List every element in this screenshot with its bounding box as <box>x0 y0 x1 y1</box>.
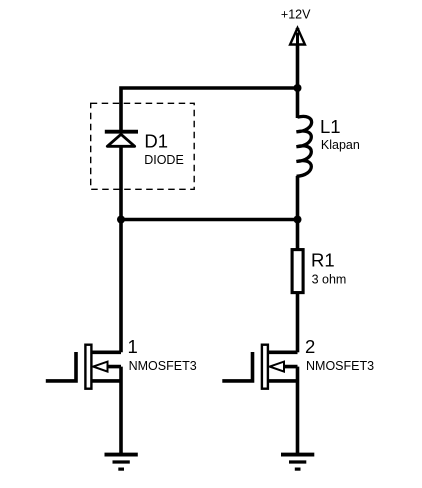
inductor L1 coil <box>297 116 312 176</box>
wire Q1 source to ground <box>119 367 123 455</box>
transistor Q1 source arrow <box>93 362 107 372</box>
wire resistor to Q2 drain <box>296 293 300 352</box>
power +12V arrow symbol <box>290 28 305 45</box>
diode D1 triangle <box>107 134 134 146</box>
node: middle left junction <box>117 216 125 224</box>
wire node to resistor <box>296 220 300 250</box>
dashed box around diode <box>91 103 195 189</box>
svg-text:D1: D1 <box>144 130 168 151</box>
transistor Q1 gate lead <box>46 352 76 381</box>
wire coil bottom to right node <box>296 176 300 220</box>
svg-text:NMOSFET3: NMOSFET3 <box>129 359 197 373</box>
wire Q2 source to ground <box>296 367 300 455</box>
svg-text:R1: R1 <box>311 249 335 270</box>
svg-text:Klapan: Klapan <box>321 138 360 152</box>
wire top rail (diode branch corner to +12V node) <box>121 88 298 132</box>
transistor Q2 source lead <box>277 365 298 369</box>
svg-text:3 ohm: 3 ohm <box>312 273 347 287</box>
svg-text:L1: L1 <box>320 116 341 137</box>
transistor Q1 source lead <box>100 365 121 369</box>
wire top node to coil <box>296 88 300 118</box>
transistor Q1 gate plate <box>85 345 91 389</box>
transistor Q2 gate plate <box>262 345 268 389</box>
resistor R1 body <box>292 250 303 293</box>
ground (left) <box>105 455 138 470</box>
ground (right) <box>281 455 314 470</box>
transistor Q1 drain lead <box>92 350 121 354</box>
transistor Q2 bulk lead <box>268 379 297 383</box>
svg-text:1: 1 <box>128 336 138 357</box>
wire diode to left node <box>119 147 123 220</box>
svg-text:2: 2 <box>305 336 315 357</box>
wire middle rail <box>121 218 298 222</box>
svg-text:NMOSFET3: NMOSFET3 <box>306 359 374 373</box>
wire left node to Q1 drain <box>119 220 123 353</box>
node: middle right junction <box>294 216 302 224</box>
transistor Q1 bulk lead <box>92 379 121 383</box>
node: top junction <box>294 84 302 92</box>
svg-text:+12V: +12V <box>281 8 311 22</box>
svg-text:DIODE: DIODE <box>144 153 184 167</box>
diode D1 cathode bar <box>105 130 138 134</box>
wire +12V stem <box>296 28 300 88</box>
transistor Q2 gate lead <box>222 352 252 381</box>
transistor Q2 drain lead <box>268 350 297 354</box>
transistor Q2 source arrow <box>270 362 284 372</box>
